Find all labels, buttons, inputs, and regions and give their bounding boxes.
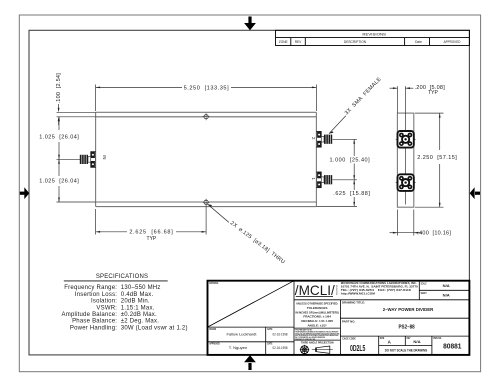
svg-text:2.250 [57.15]: 2.250 [57.15] [417, 155, 457, 161]
title block grid [208, 281, 470, 355]
svg-text:TOLERANCES: TOLERANCES [307, 306, 328, 310]
svg-text:±2 Deg. Max.: ±2 Deg. Max. [121, 319, 159, 325]
dimension 1.025 x2 [58, 117, 60, 202]
svg-text:DESCRIPTION: DESCRIPTION [344, 40, 367, 44]
svg-text:Fallow Luckhardt: Fallow Luckhardt [227, 332, 257, 336]
proprietary note [295, 328, 339, 340]
svg-text:DRAWING NO. 80881 REV. N/A: DRAWING NO. 80881 REV. N/A [295, 338, 316, 341]
dimension 5.250 [133.35] [96, 85, 317, 112]
svg-text:CAGE CODE: CAGE CODE [342, 338, 356, 341]
title block border [208, 281, 470, 355]
connector OUT 1 [316, 172, 332, 188]
svg-text:PART NO.: PART NO. [342, 319, 355, 323]
svg-text:REVISIONS: REVISIONS [362, 32, 386, 36]
svg-text:5.250 [133.35]: 5.250 [133.35] [184, 85, 230, 91]
connector IN [80, 152, 96, 168]
svg-text:http://WWW.MCLI.COM: http://WWW.MCLI.COM [341, 292, 375, 296]
svg-text:.100 [2.54]: .100 [2.54] [56, 73, 62, 104]
svg-text:Isolation:: Isolation: [91, 299, 117, 305]
svg-text:0D2L5: 0D2L5 [350, 343, 366, 353]
svg-text:130–550 MHz: 130–550 MHz [121, 285, 161, 291]
svg-text:Power Handling:: Power Handling: [70, 325, 117, 331]
svg-text:T. Nguyen: T. Nguyen [229, 346, 248, 350]
frame centering arrow bottom [244, 355, 256, 370]
frame centering arrow top [244, 17, 256, 31]
svg-text:/MCLI/: /MCLI/ [295, 283, 335, 298]
svg-text:REGISTERED: REGISTERED [337, 284, 339, 295]
svg-text:SCALE: SCALE [421, 283, 427, 286]
svg-text:REV: REV [407, 338, 411, 340]
leader 3X SMA FEMALE [329, 116, 346, 134]
company address [341, 281, 419, 296]
SMA face connector 2 [396, 131, 416, 148]
frame centering arrow right [470, 187, 480, 199]
svg-text:FRACTIONS: ± 1/64: FRACTIONS: ± 1/64 [303, 315, 331, 319]
svg-text:DWG NO.: DWG NO. [433, 338, 442, 340]
svg-text:1.000 [25.40]: 1.000 [25.40] [330, 158, 371, 164]
IN connector centerline [57, 158, 96, 160]
revision table grid [276, 30, 470, 45]
svg-text:02-16-1998: 02-16-1998 [273, 332, 288, 336]
dimension 1.000 / .625 extension lines [316, 139, 357, 206]
inner border frame [29, 30, 469, 355]
svg-text:REV: REV [295, 40, 302, 44]
svg-text:ANGLE: ±1/2°: ANGLE: ±1/2° [308, 324, 328, 328]
svg-text:2.625 [66.68]: 2.625 [66.68] [129, 230, 173, 236]
svg-text:Insertion Loss:: Insertion Loss: [75, 292, 117, 298]
svg-text:Amplitude Balance:: Amplitude Balance: [62, 312, 118, 318]
svg-text:±0.2dB Max.: ±0.2dB Max. [121, 312, 157, 318]
svg-text:DECIMALS: ±.01 ±.005: DECIMALS: ±.01 ±.005 [301, 319, 333, 323]
dimension 2.250 [57.15] [415, 113, 444, 207]
svg-text:IN: IN [102, 155, 107, 159]
svg-text:UNLESS OTHERWISE SPECIFIED:: UNLESS OTHERWISE SPECIFIED: [296, 302, 338, 306]
end view centerline [405, 86, 407, 204]
svg-text:N/A: N/A [413, 340, 421, 344]
dimension .200 [5.08] TYP [390, 87, 398, 89]
svg-text:80881: 80881 [443, 344, 461, 351]
svg-text:TYP: TYP [428, 90, 438, 96]
revision table headers [279, 32, 461, 44]
extension lines for .100 and 1.025 dims [57, 112, 96, 202]
end view outline [397, 113, 413, 207]
MCLI logo [295, 283, 339, 298]
svg-text:DATE: DATE [267, 328, 273, 331]
mounting hole bottom [203, 199, 210, 206]
svg-text:02-16-1998: 02-16-1998 [273, 346, 288, 350]
svg-text:MATERIAL: MATERIAL [209, 282, 219, 285]
body outline top view [96, 112, 317, 206]
svg-text:N/A: N/A [443, 293, 450, 297]
tolerance block [295, 302, 339, 328]
svg-text:ZONE: ZONE [279, 40, 288, 44]
svg-text:2–WAY POWER DIVIDER: 2–WAY POWER DIVIDER [383, 307, 434, 313]
svg-text:PS2–88: PS2–88 [399, 325, 415, 331]
svg-text:SHEET: SHEET [421, 293, 427, 295]
svg-text:VSWR:: VSWR: [96, 305, 117, 311]
svg-text:Frequency Range:: Frequency Range: [64, 285, 117, 291]
svg-text:1.025 [26.04]: 1.025 [26.04] [39, 135, 79, 141]
svg-text:DO NOT SCALE THE DRAWING: DO NOT SCALE THE DRAWING [385, 349, 428, 353]
svg-text:THIRD ANGLE PROJECTION: THIRD ANGLE PROJECTION [301, 341, 334, 344]
svg-text:Phase Balance:: Phase Balance: [72, 319, 117, 325]
svg-text:APPROVED: APPROVED [209, 343, 220, 346]
svg-text:DRAWING TITLE:: DRAWING TITLE: [342, 300, 365, 304]
svg-text:.400 [10.16]: .400 [10.16] [417, 231, 451, 237]
svg-text:1.025 [26.04]: 1.025 [26.04] [39, 179, 79, 185]
mounting hole top [203, 113, 210, 120]
frame centering arrow left [20, 187, 29, 199]
connector OUT 2 [316, 131, 332, 147]
svg-text:DRAWN: DRAWN [209, 328, 216, 331]
svg-text:.625 [15.88]: .625 [15.88] [333, 191, 370, 197]
svg-text:TEL: (727) 345-6254 FAX: (7: TEL: (727) 345-6254 FAX: (727) 347-6116 [341, 288, 412, 292]
svg-text:SIZE: SIZE [380, 338, 385, 340]
dimension .100 [2.54] [58, 104, 60, 125]
svg-text:SPECIFICATIONS: SPECIFICATIONS [96, 274, 148, 280]
svg-text:TYP: TYP [147, 236, 157, 242]
svg-text:IN INCHES OR [mm] (MILLIMETERS: IN INCHES OR [mm] (MILLIMETERS) [295, 310, 339, 314]
leader 2X dia .125 THRU [208, 204, 229, 222]
dimension 2.625 [66.68] TYP [96, 206, 207, 235]
svg-text:30W (Load vswr at 1.2): 30W (Load vswr at 1.2) [121, 325, 188, 331]
svg-text:1.15:1 Max.: 1.15:1 Max. [121, 305, 155, 311]
svg-text:20dB Min.: 20dB Min. [121, 299, 150, 305]
SMA face connector 1 [396, 174, 416, 191]
svg-text:MICROWAVE COMMUNICATIONS LABOR: MICROWAVE COMMUNICATIONS LABORATORIES, I… [341, 281, 417, 285]
body cover lines [96, 117, 317, 202]
svg-text:0.4dB Max.: 0.4dB Max. [121, 292, 154, 298]
svg-text:10751 74TH AVE. N. SAINT PETE: 10751 74TH AVE. N. SAINT PETERSBURG, FL … [341, 285, 419, 289]
svg-text:Date: Date [415, 40, 422, 44]
svg-text:N/A: N/A [443, 284, 450, 288]
svg-text:APPROVED: APPROVED [444, 40, 461, 44]
dimension .400 [10.16] [390, 210, 422, 236]
